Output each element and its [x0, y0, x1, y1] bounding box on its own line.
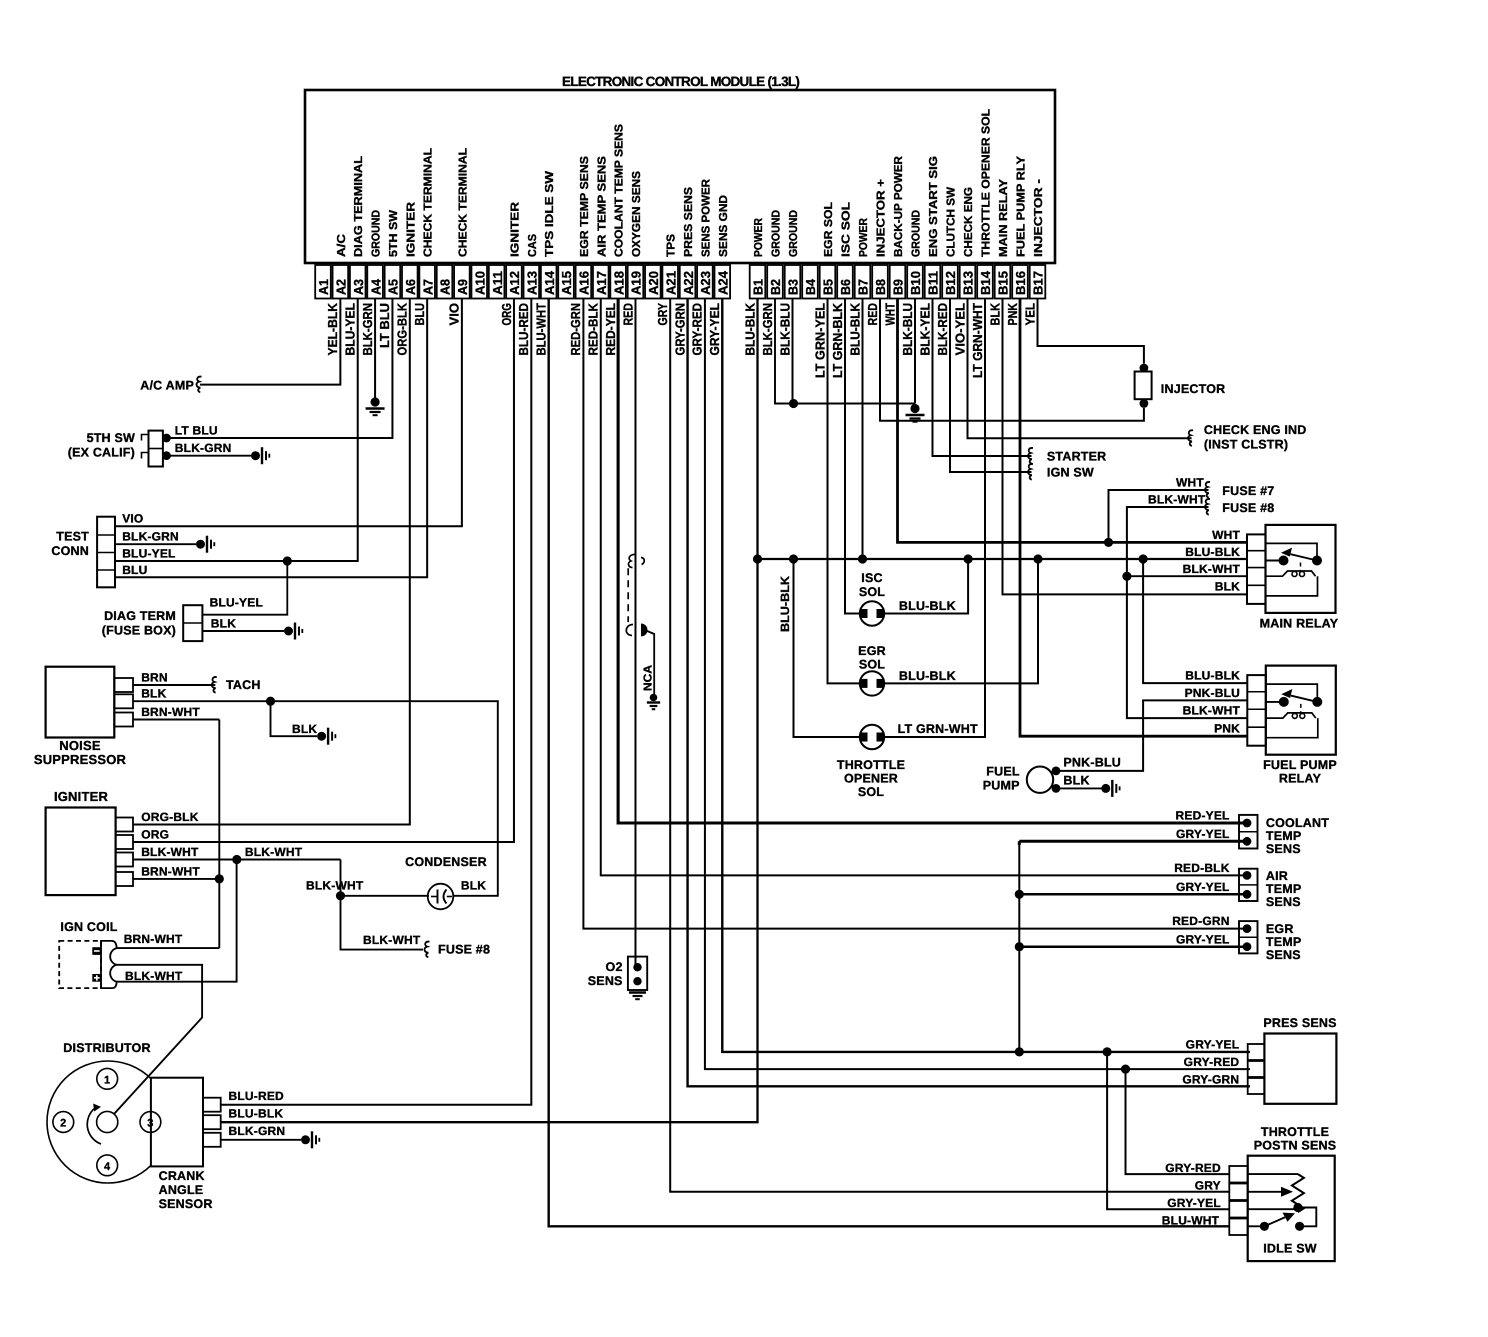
pin B14 [977, 265, 993, 299]
svg-text:(EX CALIF): (EX CALIF) [68, 446, 135, 460]
svg-text:SENS: SENS [1266, 948, 1301, 962]
svg-text:SENS POWER: SENS POWER [700, 178, 712, 257]
throttle sens connector bumps [1229, 1166, 1247, 1183]
svg-text:YEL-BLK: YEL-BLK [325, 302, 340, 355]
svg-text:5TH SW: 5TH SW [388, 210, 400, 257]
svg-text:B1: B1 [751, 279, 766, 295]
svg-text:SENS GND: SENS GND [718, 195, 730, 257]
svg-text:BLK-WHT: BLK-WHT [363, 933, 421, 947]
ground noise supp BLK [317, 732, 326, 741]
svg-text:INJECTOR: INJECTOR [1161, 382, 1226, 396]
svg-text:BLU-BLK: BLU-BLK [1185, 545, 1240, 559]
5th sw connector [149, 431, 163, 467]
svg-text:BLK-WHT: BLK-WHT [141, 845, 199, 859]
svg-text:BLK-WHT: BLK-WHT [1183, 704, 1241, 718]
wire fuel pump relay BLU-BLK feed [1143, 559, 1247, 683]
svg-text:BLU-RED: BLU-RED [516, 303, 531, 356]
svg-text:SUPPRESSOR: SUPPRESSOR [34, 752, 127, 767]
svg-text:BLK-GRN: BLK-GRN [360, 303, 375, 356]
svg-text:RELAY: RELAY [1279, 772, 1322, 786]
pin A8 [437, 265, 453, 299]
fuel pump motor [1027, 767, 1053, 793]
wire ign coil BRN-WHT [117, 947, 220, 949]
svg-text:BLK-GRN: BLK-GRN [122, 530, 179, 544]
svg-text:A12: A12 [507, 271, 522, 295]
svg-text:LT GRN-YEL: LT GRN-YEL [812, 303, 827, 378]
svg-text:BLU-BLK: BLU-BLK [899, 669, 956, 683]
junction dot GRY-RED throttle branch [1121, 1065, 1130, 1074]
ign coil body [59, 941, 101, 988]
wire A16 RED-GRN to EGR temp sens [583, 299, 1247, 929]
svg-text:B11: B11 [926, 271, 941, 295]
svg-text:LT BLU: LT BLU [175, 424, 218, 438]
wire fuse7 WHT [1109, 490, 1209, 542]
svg-text:CHECK ENG: CHECK ENG [963, 187, 975, 257]
svg-text:BLK-GRN: BLK-GRN [760, 303, 775, 356]
svg-text:LT GRN-WHT: LT GRN-WHT [970, 303, 985, 378]
svg-text:LT GRN-BLK: LT GRN-BLK [830, 302, 845, 378]
svg-text:ORG-BLK: ORG-BLK [141, 810, 199, 824]
svg-text:A24: A24 [715, 270, 730, 295]
junction dot NCA ground [650, 694, 658, 702]
svg-text:OXYGEN SENS: OXYGEN SENS [631, 171, 643, 257]
svg-text:THROTTLE OPENER SOL: THROTTLE OPENER SOL [981, 109, 993, 257]
svg-text:FUSE #8: FUSE #8 [438, 943, 490, 957]
pin A21 [662, 265, 678, 299]
svg-text:B15: B15 [996, 271, 1011, 295]
svg-text:VIO-YEL: VIO-YEL [952, 303, 967, 356]
svg-text:RED-GRN: RED-GRN [568, 303, 583, 356]
hook fuse8 left [424, 942, 429, 958]
svg-text:A1: A1 [316, 279, 331, 295]
ground diag term [284, 627, 293, 636]
svg-text:GRY-YEL: GRY-YEL [1176, 933, 1230, 947]
svg-text:TEMP: TEMP [1266, 882, 1302, 896]
pin B7 [855, 265, 871, 299]
svg-text:BLK-GRN: BLK-GRN [175, 441, 232, 455]
injector top terminal [1140, 364, 1149, 373]
hook tach [212, 677, 217, 693]
junction dot BLK ground branch [266, 697, 275, 706]
svg-text:BLU-BLK: BLU-BLK [742, 302, 757, 355]
svg-text:POWER: POWER [753, 217, 765, 257]
svg-text:TEMP: TEMP [1266, 935, 1302, 949]
wire A5 LT BLU to 5th sw [167, 299, 393, 439]
svg-text:BRN-WHT: BRN-WHT [141, 865, 200, 879]
svg-text:DIAG TERM: DIAG TERM [104, 609, 176, 623]
svg-text:INJECTOR +: INJECTOR + [876, 179, 888, 257]
svg-text:CONN: CONN [51, 544, 89, 558]
svg-text:GRY-GRN: GRY-GRN [1182, 1073, 1239, 1087]
pres sens body [1264, 1034, 1336, 1104]
svg-text:RED-YEL: RED-YEL [603, 303, 618, 356]
wire coolant GRY-YEL [1019, 840, 1247, 843]
wire condenser left BLK-WHT [341, 895, 430, 897]
svg-text:B4: B4 [803, 278, 818, 295]
svg-text:B14: B14 [978, 270, 993, 295]
wire B17 YEL to injector [1038, 299, 1144, 364]
svg-text:VIO: VIO [122, 512, 143, 526]
pin A4 [367, 265, 383, 299]
hook fuse8 [1205, 499, 1210, 515]
wire NCA drain [646, 631, 654, 696]
wire test conn BLK-GRN [115, 543, 196, 545]
svg-text:IGNITER: IGNITER [54, 789, 109, 804]
junction dot ISC riser rail [964, 554, 973, 563]
pin B6 [837, 265, 853, 299]
wire pot to idle sw [1298, 1208, 1316, 1227]
wire B13 VIO-YEL to check eng ind [968, 299, 1192, 439]
svg-text:CHECK ENG IND: CHECK ENG IND [1204, 423, 1307, 437]
svg-text:A21: A21 [663, 271, 678, 295]
wire B1 BLU-BLK power to distributor [221, 299, 758, 1123]
wire B16 PNK to fuel pump relay [1020, 299, 1247, 737]
svg-text:PNK-BLU: PNK-BLU [1185, 686, 1240, 700]
svg-text:LT GRN-WHT: LT GRN-WHT [898, 722, 978, 736]
svg-text:BLU-BLK: BLU-BLK [778, 576, 792, 632]
main relay K1 [1266, 525, 1336, 613]
coolant temp sens connector [1239, 815, 1258, 849]
wire noise supp BRN to tach [133, 684, 215, 686]
junction dot GRY-YEL throttle branch [1103, 1047, 1112, 1056]
wire B5 LT GRN-YEL to EGR sol [828, 299, 861, 684]
noise suppressor box [46, 667, 115, 738]
pin A10 [471, 265, 487, 299]
svg-text:THROTTLE: THROTTLE [837, 758, 905, 772]
svg-text:CAS: CAS [527, 234, 539, 257]
svg-text:A17: A17 [594, 271, 609, 295]
svg-text:ORG: ORG [141, 828, 169, 842]
svg-text:BLU-YEL: BLU-YEL [122, 547, 175, 561]
svg-text:CRANK: CRANK [159, 1169, 205, 1183]
svg-text:BRN-WHT: BRN-WHT [141, 705, 200, 719]
svg-text:RED-YEL: RED-YEL [1176, 809, 1230, 823]
svg-text:AIR TEMP SENS: AIR TEMP SENS [596, 156, 608, 257]
pin A19 [628, 265, 644, 299]
svg-text:FUSE #8: FUSE #8 [1222, 501, 1274, 515]
svg-text:GRY-RED: GRY-RED [690, 303, 705, 356]
junction dot fuse7/WHT row [1104, 538, 1113, 547]
svg-text:BLK-YEL: BLK-YEL [917, 303, 932, 356]
svg-text:WHT: WHT [1212, 528, 1240, 542]
ground 5th sw [251, 451, 260, 460]
wire B9 WHT back-up power [898, 299, 1248, 543]
svg-text:B9: B9 [891, 279, 906, 295]
svg-text:GRY-GRN: GRY-GRN [672, 303, 687, 356]
svg-text:GRY: GRY [1195, 1179, 1221, 1193]
distributor post 1 [97, 1068, 118, 1089]
svg-text:4: 4 [104, 1161, 111, 1173]
svg-text:2: 2 [60, 1118, 66, 1130]
svg-text:SENS: SENS [588, 974, 623, 988]
svg-text:GRY-YEL: GRY-YEL [1167, 1196, 1221, 1210]
svg-text:A23: A23 [698, 271, 713, 295]
svg-text:BLK: BLK [211, 617, 236, 631]
svg-text:GROUND: GROUND [371, 210, 383, 257]
svg-text:ORG-BLK: ORG-BLK [395, 302, 410, 355]
ground fuel pump [1101, 784, 1110, 793]
5th sw terminal LT BLU [162, 434, 171, 443]
svg-text:BLK-GRN: BLK-GRN [229, 1124, 286, 1138]
fuel pump PNK-BLU terminal [1052, 767, 1061, 776]
wire A9 VIO to test connector [115, 299, 462, 527]
pin B13 [960, 265, 976, 299]
svg-text:IGN COIL: IGN COIL [60, 920, 117, 934]
svg-text:NOISE: NOISE [59, 738, 101, 753]
hook check eng ind [1188, 430, 1193, 446]
svg-text:BLU-BLK: BLU-BLK [1185, 669, 1240, 683]
air temp sens connector [1239, 869, 1258, 901]
pin A13 [524, 265, 540, 299]
wire B2 BLK-GRN ground [775, 299, 794, 404]
svg-text:TPS IDLE SW: TPS IDLE SW [544, 171, 556, 257]
svg-text:SOL: SOL [859, 658, 885, 672]
svg-text:5TH SW: 5TH SW [87, 431, 135, 445]
svg-text:IGNITER: IGNITER [405, 201, 417, 257]
svg-text:SENS: SENS [1266, 895, 1301, 909]
hook A/C amp [196, 377, 201, 393]
svg-text:SENS: SENS [1266, 842, 1301, 856]
ign coil - terminal [92, 947, 101, 955]
svg-text:BLU-YEL: BLU-YEL [210, 596, 263, 610]
junction dot B1 power rail [753, 554, 762, 563]
wire BLK ground branch [271, 701, 318, 736]
distributor center post [97, 1111, 118, 1132]
igniter bumps [116, 818, 133, 832]
wire B11 BLK-YEL to starter [933, 299, 1032, 457]
svg-text:EGR: EGR [1266, 922, 1294, 936]
junction dot igniter BLK-WHT [232, 855, 241, 864]
svg-text:MAIN RELAY: MAIN RELAY [998, 179, 1010, 257]
pin A12 [506, 265, 522, 299]
5th sw terminal BLK-GRN [162, 451, 171, 460]
ground NCA [647, 701, 660, 703]
svg-text:BRN-WHT: BRN-WHT [124, 932, 183, 946]
throttle postn sens body [1248, 1156, 1335, 1261]
svg-text:THROTTLE: THROTTLE [1261, 1125, 1329, 1139]
pin B17 [1030, 265, 1046, 299]
svg-text:B7: B7 [856, 279, 871, 295]
pin A22 [680, 265, 696, 299]
wire throttle opener sol feed BLU-BLK [794, 559, 861, 737]
O2 sens bottom terminal [633, 977, 641, 985]
svg-text:ANGLE: ANGLE [159, 1183, 204, 1197]
pin B10 [907, 265, 923, 299]
O2 sens box [628, 957, 647, 990]
NCA shield hook top [628, 554, 636, 567]
wire ign coil HT to distributor [114, 965, 202, 1114]
wire GRY-YEL bus vertical [1018, 841, 1020, 1052]
svg-text:A9: A9 [455, 279, 470, 295]
wire BRN-WHT vertical [218, 720, 220, 949]
injector body [1135, 372, 1152, 400]
pin A9 [454, 265, 470, 299]
svg-text:STARTER: STARTER [1047, 450, 1107, 464]
svg-text:B16: B16 [1013, 271, 1028, 295]
pin B15 [995, 265, 1011, 299]
distributor post 4 [97, 1155, 118, 1176]
pin A11 [489, 265, 505, 299]
svg-text:PNK: PNK [1005, 303, 1020, 326]
junction dot BLK-WHT condenser [336, 891, 345, 900]
svg-text:BLK: BLK [292, 722, 317, 736]
svg-text:GRY-YEL: GRY-YEL [707, 303, 722, 356]
wire A19 RED to O2 sens [634, 299, 636, 968]
ground test conn [196, 540, 205, 549]
svg-text:A13: A13 [525, 271, 540, 295]
wire B12 BLK-RED to ign sw [950, 299, 1032, 473]
pin B9 [890, 265, 906, 299]
wire A7 BLU to test connector [115, 299, 427, 578]
svg-text:CONDENSER: CONDENSER [405, 855, 487, 869]
wire throttle GRY-YEL branch [1107, 1052, 1229, 1209]
pin A24 [714, 265, 730, 299]
svg-text:POWER: POWER [858, 217, 870, 257]
pin B4 [802, 265, 818, 299]
svg-text:RED-BLK: RED-BLK [586, 302, 601, 355]
wire diag term BLK [202, 630, 284, 632]
wire B10 BLK-BLU ground [914, 299, 916, 404]
svg-text:PNK-BLU: PNK-BLU [1063, 756, 1121, 770]
idle sw left contact [1260, 1222, 1269, 1231]
svg-text:BLK-WHT: BLK-WHT [125, 969, 183, 983]
junction dot rail throttle-sol branch [789, 554, 798, 563]
svg-text:A14: A14 [542, 270, 557, 295]
svg-text:A2: A2 [334, 279, 349, 295]
svg-text:BLK-RED: BLK-RED [935, 303, 950, 356]
svg-text:PRES SENS: PRES SENS [683, 187, 695, 257]
junction dot pot bottom [1293, 1203, 1302, 1212]
svg-text:PUMP: PUMP [983, 779, 1020, 793]
O2 sens top terminal [633, 963, 641, 971]
ECM box [305, 90, 1055, 263]
crank angle sensor bumps [203, 1098, 221, 1112]
wire throttle GRY-RED branch [1126, 1069, 1230, 1174]
pin A6 [402, 265, 418, 299]
pin B1 [750, 265, 766, 299]
svg-text:B5: B5 [821, 279, 836, 295]
svg-text:POSTN SENS: POSTN SENS [1254, 1139, 1337, 1153]
pin A23 [697, 265, 713, 299]
throttle pot wire in [1248, 1173, 1298, 1175]
svg-text:OPENER: OPENER [844, 772, 898, 786]
NCA inline connector [626, 625, 633, 636]
svg-text:BLU-WHT: BLU-WHT [1162, 1214, 1220, 1228]
svg-text:DIAG TERMINAL: DIAG TERMINAL [353, 156, 365, 257]
svg-text:RED: RED [865, 303, 880, 326]
wire B15 BLK to main relay [1003, 299, 1248, 595]
svg-text:BLK-WHT: BLK-WHT [245, 845, 303, 859]
junction dot GRY-YEL egr temp [1015, 942, 1024, 951]
svg-text:BLU: BLU [412, 303, 427, 326]
wire main relay BLK-WHT row [1127, 575, 1247, 577]
wire A2 YEL-BLK to A/C amp [200, 299, 340, 385]
pin A5 [385, 265, 401, 299]
ground B10 [910, 404, 919, 413]
svg-text:1: 1 [104, 1074, 110, 1086]
svg-text:NCA: NCA [643, 665, 655, 691]
svg-text:IGN SW: IGN SW [1047, 466, 1094, 480]
svg-text:GRY-RED: GRY-RED [1165, 1161, 1221, 1175]
svg-text:ENG START SIG: ENG START SIG [928, 156, 940, 257]
svg-text:TEST: TEST [56, 530, 89, 544]
svg-text:A8: A8 [438, 279, 453, 295]
svg-text:SOL: SOL [859, 585, 885, 599]
ign coil + terminal [92, 974, 101, 982]
svg-text:IDLE SW: IDLE SW [1263, 1242, 1316, 1256]
svg-text:A4: A4 [368, 278, 383, 295]
resistor throttle pot [1292, 1174, 1304, 1212]
distributor rotor arrow [87, 1108, 101, 1144]
svg-text:GROUND: GROUND [911, 210, 923, 257]
svg-text:COOLANT TEMP SENS: COOLANT TEMP SENS [614, 124, 626, 257]
wire A18 RED-YEL to coolant temp sens [618, 299, 1247, 824]
junction dot EGR riser rail [1033, 554, 1042, 563]
svg-text:BLK: BLK [987, 302, 1002, 325]
wire A3 BLU-YEL to test connector [115, 299, 358, 562]
svg-text:GROUND: GROUND [788, 210, 800, 257]
svg-text:ELECTRONIC CONTROL MODULE (1.3: ELECTRONIC CONTROL MODULE (1.3L) [562, 74, 800, 89]
svg-text:GRY-RED: GRY-RED [1184, 1055, 1240, 1069]
svg-text:(INST CLSTR): (INST CLSTR) [1204, 438, 1288, 452]
svg-text:FUEL: FUEL [986, 765, 1020, 779]
wire egr temp GRY-YEL [1019, 945, 1247, 948]
solenoid throttle opener [860, 725, 884, 749]
wire BLK-WHT vertical to condenser/fuse8 [341, 860, 424, 950]
svg-text:BLK: BLK [1063, 774, 1089, 788]
fuel pump BLK terminal [1052, 784, 1061, 793]
svg-text:GROUND: GROUND [771, 210, 783, 257]
pin A16 [576, 265, 592, 299]
junction dot A3/diag-term [283, 556, 292, 565]
egr temp sens connector [1239, 921, 1258, 953]
svg-text:A3: A3 [351, 279, 366, 295]
svg-text:RED-GRN: RED-GRN [1172, 914, 1229, 928]
svg-text:A/C AMP: A/C AMP [140, 379, 194, 393]
svg-text:CLUTCH SW: CLUTCH SW [946, 187, 958, 257]
pin A7 [419, 265, 435, 299]
junction dot BRN-WHT [215, 874, 224, 883]
svg-text:A18: A18 [611, 271, 626, 295]
svg-text:GRY-YEL: GRY-YEL [1176, 827, 1230, 841]
svg-text:B2: B2 [768, 279, 783, 295]
wire 5th sw BLK-GRN [167, 455, 252, 457]
svg-text:ISC: ISC [861, 571, 882, 585]
svg-text:BLU-WHT: BLU-WHT [533, 303, 548, 356]
svg-text:A19: A19 [629, 271, 644, 295]
distributor post 2 [53, 1112, 74, 1133]
pin A17 [593, 265, 609, 299]
pin A1 [315, 265, 331, 299]
idle sw right contact [1295, 1222, 1304, 1231]
wire A17 RED-BLK to air temp sens [601, 299, 1247, 876]
svg-text:B6: B6 [838, 279, 853, 295]
svg-text:A11: A11 [490, 271, 505, 295]
svg-text:ORG: ORG [499, 303, 514, 326]
junction dot GRY-YEL bus to pres sens [1015, 1047, 1024, 1056]
hook fuse7 [1205, 482, 1210, 498]
pin A20 [645, 265, 661, 299]
svg-text:GRY-YEL: GRY-YEL [1186, 1038, 1240, 1052]
svg-text:GRY: GRY [655, 303, 670, 326]
svg-text:BLK-WHT: BLK-WHT [306, 879, 364, 893]
wire B6 LT GRN-BLK to ISC sol [845, 299, 860, 614]
ground dist [301, 1135, 310, 1144]
wire noise supp BLK to condenser [133, 701, 498, 896]
svg-text:LT BLU: LT BLU [377, 303, 392, 348]
svg-text:BRN: BRN [141, 671, 168, 685]
svg-text:A16: A16 [577, 271, 592, 295]
